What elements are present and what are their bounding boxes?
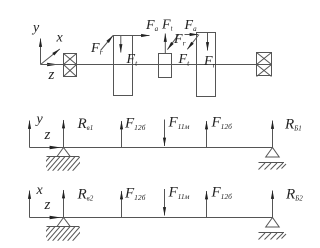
force Fr2 (diagonal onto coupling) <box>167 34 179 49</box>
svg-text:F11м: F11м <box>168 115 190 132</box>
svg-text:Ft: Ft <box>126 52 139 68</box>
svg-text:RБ1: RБ1 <box>284 117 302 133</box>
axis z row3 <box>46 217 61 219</box>
svg-text:z: z <box>44 197 51 213</box>
svg-text:z: z <box>44 127 51 143</box>
svg-text:x: x <box>36 183 44 198</box>
reaction RB2 arrow <box>63 190 65 218</box>
axis y (top diagram) <box>40 39 42 65</box>
svg-text:F12б: F12б <box>124 116 146 133</box>
shaft centerline <box>41 64 257 66</box>
beam row2 <box>30 147 273 149</box>
reaction RB1 arrow <box>63 120 65 148</box>
svg-text:Fa: Fa <box>145 18 159 33</box>
svg-text:Rв2: Rв2 <box>77 187 94 203</box>
svg-text:Fa: Fa <box>184 18 198 33</box>
force Ft3 (diagonal from gear 2 corner) <box>187 35 199 50</box>
force Fa2 (horizontal into gear 2 corner) <box>185 34 199 36</box>
support right row2 (roller) <box>259 148 287 170</box>
beam row3 <box>30 217 273 219</box>
svg-text:y: y <box>35 112 44 127</box>
coupling (middle hub) <box>159 54 172 78</box>
axis y row2 <box>29 121 31 148</box>
svg-text:Fr: Fr <box>203 54 216 70</box>
gear 2 <box>197 33 216 97</box>
force F12b left row2 <box>121 121 123 148</box>
svg-text:Ft: Ft <box>161 18 174 33</box>
bearing left <box>64 54 77 77</box>
svg-text:y: y <box>31 21 40 36</box>
force F12b right row3 <box>206 191 208 218</box>
axis z (top diagram) <box>41 64 59 66</box>
force Fr3 (vertical down inside gear 2) <box>207 33 209 51</box>
force Ft1 (vertical down inside gear 1) <box>120 36 122 53</box>
svg-text:F12б: F12б <box>124 186 146 203</box>
support left row2 (pinned) <box>38 148 86 172</box>
force F11m row2 (down) <box>164 120 166 147</box>
svg-text:z: z <box>48 67 55 83</box>
support right row3 (roller) <box>259 218 287 240</box>
svg-text:Ft: Ft <box>178 52 191 68</box>
support left row3 (pinned) <box>38 218 86 242</box>
svg-text:F11м: F11м <box>168 185 190 202</box>
force F11m row3 (down) <box>164 189 166 216</box>
axis x (top diagram) <box>41 49 60 65</box>
gear 1 <box>114 36 133 96</box>
axis x row3 <box>29 191 31 218</box>
axis z row2 <box>46 147 61 149</box>
force F12b right row2 <box>206 121 208 148</box>
svg-text:x: x <box>56 31 64 46</box>
svg-text:RБ2: RБ2 <box>285 187 303 203</box>
reaction RB2r arrow <box>272 191 274 218</box>
svg-text:Rв1: Rв1 <box>77 116 94 132</box>
svg-text:Fr: Fr <box>90 41 103 57</box>
bearing right <box>257 53 272 77</box>
force F12b left row3 <box>121 191 123 218</box>
force Ft2 (vertical up from coupling) <box>164 34 166 54</box>
force Fr1 (diagonal at gear 1 top-left) <box>101 36 114 51</box>
reaction RB1r arrow <box>272 121 274 148</box>
svg-text:Fr: Fr <box>173 32 186 48</box>
svg-text:F12б: F12б <box>211 115 233 132</box>
force Fa1 (horizontal at gear 1 top-right) <box>133 35 150 37</box>
svg-text:F12б: F12б <box>211 185 233 202</box>
